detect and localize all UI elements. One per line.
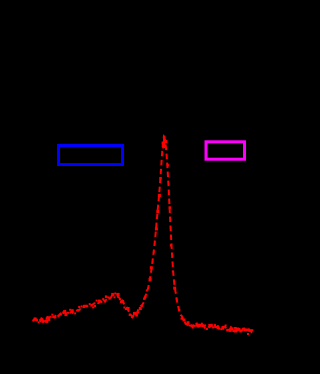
red data point markers: [32, 136, 253, 336]
magenta legend rectangle: [206, 142, 245, 159]
blue legend rectangle: [59, 146, 123, 165]
red data curve (dashed noisy spectrum with sharp peak): [33, 137, 253, 332]
